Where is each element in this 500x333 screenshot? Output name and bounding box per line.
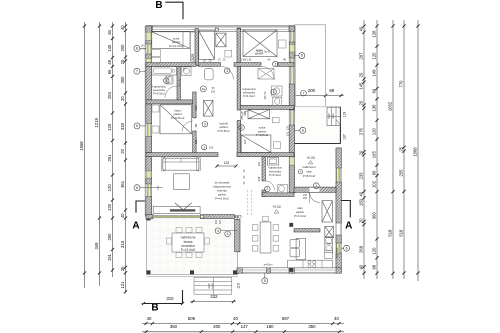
bed bedroom5 xyxy=(241,135,271,152)
svg-text:84: 84 xyxy=(107,29,112,34)
svg-text:P=4.3m2: P=4.3m2 xyxy=(294,214,306,218)
wardrobe bedroom1 xyxy=(190,32,195,61)
svg-text:310: 310 xyxy=(166,296,174,301)
terrace bottom double line xyxy=(147,276,238,278)
right dimension chain 3 (1052/518) xyxy=(392,20,394,279)
svg-text:125: 125 xyxy=(107,203,112,211)
svg-text:A: A xyxy=(345,221,352,232)
leader circle 6 left lower xyxy=(134,185,140,191)
svg-text:49: 49 xyxy=(107,59,112,64)
wall bedroom2-bedroom3 xyxy=(237,29,240,66)
dashed ceiling line xyxy=(247,190,249,216)
svg-text:B: B xyxy=(151,303,158,314)
bathroom2 basin xyxy=(272,86,283,96)
svg-text:127: 127 xyxy=(243,139,247,144)
svg-text:3: 3 xyxy=(204,122,206,126)
svg-text:20: 20 xyxy=(359,72,364,77)
corridor right wall upper xyxy=(237,66,241,110)
svg-text:205: 205 xyxy=(209,146,214,150)
nightstand bedroom4 xyxy=(152,105,159,112)
wall living room top right xyxy=(237,153,294,157)
north exterior wall xyxy=(146,26,294,32)
svg-text:P=5.9m2: P=5.9m2 xyxy=(153,92,165,96)
terrace corner posts xyxy=(147,270,151,274)
west wall window sill xyxy=(146,59,151,65)
bathroom2 shower xyxy=(258,69,274,80)
wall bathroom2-bedroom5 xyxy=(240,105,294,109)
bathroom1 wc xyxy=(166,76,173,84)
porch stairs xyxy=(327,107,340,125)
svg-text:145: 145 xyxy=(359,82,364,90)
svg-text:40: 40 xyxy=(233,316,238,321)
svg-text:128: 128 xyxy=(372,30,377,38)
svg-text:103: 103 xyxy=(285,131,289,136)
entrance porch outline xyxy=(294,107,340,144)
svg-text:P=41.8m2: P=41.8m2 xyxy=(215,196,229,200)
terrace tile grid xyxy=(151,217,153,274)
nightstand bedroom5 xyxy=(272,117,279,122)
west wall pier xyxy=(146,178,152,184)
svg-text:40: 40 xyxy=(334,316,339,321)
bed bedroom2 xyxy=(199,31,215,60)
bed bedroom1 xyxy=(152,32,190,49)
svg-text:2: 2 xyxy=(266,187,268,191)
west wall pier xyxy=(146,41,152,45)
door circle 3 bedroom5 xyxy=(239,125,245,131)
wall below bedroom3 right xyxy=(278,63,295,67)
svg-text:1568: 1568 xyxy=(79,141,84,151)
svg-text:4x30: 4x30 xyxy=(207,283,211,289)
wc left wall lower xyxy=(262,190,265,197)
door arc bedroom4 xyxy=(182,121,193,132)
svg-text:1: 1 xyxy=(315,184,317,188)
svg-text:4x30: 4x30 xyxy=(332,113,335,119)
east lower wall window xyxy=(336,168,338,182)
svg-text:518: 518 xyxy=(399,229,404,237)
svg-text:297: 297 xyxy=(359,52,364,60)
svg-text:8: 8 xyxy=(136,47,138,51)
svg-text:6: 6 xyxy=(346,246,348,250)
svg-text:+0.00: +0.00 xyxy=(272,205,281,209)
north wall post 1 xyxy=(215,28,218,31)
svg-text:25: 25 xyxy=(399,146,404,151)
svg-text:140: 140 xyxy=(141,45,146,48)
bathroom1 bathtub xyxy=(152,67,177,75)
nightstand bedroom1 xyxy=(152,50,161,57)
svg-text:151: 151 xyxy=(107,253,112,261)
kitchen sink bowls xyxy=(290,239,300,247)
terrace table xyxy=(172,233,204,252)
dining table xyxy=(260,222,271,253)
east wall pier xyxy=(289,42,294,45)
west wall pier xyxy=(146,157,152,171)
door arc bedroom5 xyxy=(241,111,251,121)
north wall corner pier east xyxy=(289,26,294,32)
svg-text:300: 300 xyxy=(120,76,125,84)
svg-text:137: 137 xyxy=(343,134,347,140)
svg-text:20: 20 xyxy=(359,100,364,105)
west wall pier xyxy=(146,197,152,217)
washing machine xyxy=(182,67,191,76)
svg-text:P=19.0m2: P=19.0m2 xyxy=(181,248,196,252)
left dimension chain 3 (room dims) xyxy=(112,22,114,277)
svg-text:66: 66 xyxy=(372,88,377,93)
dimension 232 below steps xyxy=(190,300,236,302)
south wall pier xyxy=(289,268,294,273)
kitchen box2 xyxy=(325,244,333,253)
entry door arc xyxy=(310,192,321,202)
svg-text:103: 103 xyxy=(335,253,339,258)
east lower wall pier xyxy=(336,253,341,273)
svg-text:7: 7 xyxy=(303,91,305,95)
svg-text:120: 120 xyxy=(285,125,289,130)
svg-text:40: 40 xyxy=(120,213,125,218)
east lower wall pier xyxy=(336,148,341,168)
sliding door track south xyxy=(153,215,201,217)
east exterior wall upper xyxy=(289,26,294,193)
east lower wall pier xyxy=(336,235,341,243)
svg-text:3a: 3a xyxy=(202,87,206,91)
bottom dimension chain row 1 xyxy=(142,323,344,325)
svg-text:5x28: 5x28 xyxy=(328,113,331,119)
svg-text:127: 127 xyxy=(257,161,261,166)
kitchen small grid xyxy=(325,251,333,259)
svg-text:45: 45 xyxy=(283,58,287,62)
south exterior wall xyxy=(237,268,341,273)
svg-text:P=9.8m2: P=9.8m2 xyxy=(256,133,268,137)
right dimension chain 5 (total 1568) xyxy=(417,20,419,281)
wall living room top left xyxy=(146,153,218,157)
west wall pier xyxy=(146,26,152,32)
svg-text:20: 20 xyxy=(359,150,364,155)
svg-text:121: 121 xyxy=(194,139,198,144)
svg-text:597: 597 xyxy=(282,316,290,321)
svg-text:136: 136 xyxy=(372,104,377,112)
east lower wall pier xyxy=(336,182,341,223)
right dimension chain 2 (room dims) xyxy=(376,20,378,279)
svg-text:2: 2 xyxy=(165,79,167,83)
fridge circle box xyxy=(325,237,333,244)
svg-text:20: 20 xyxy=(359,218,364,223)
corridor dresser xyxy=(205,69,214,80)
north wall corner pier west xyxy=(146,26,152,32)
svg-text:276: 276 xyxy=(359,127,364,135)
wardrobe bedroom5 xyxy=(248,110,270,119)
south wall pier xyxy=(237,268,242,273)
svg-text:20: 20 xyxy=(120,148,125,153)
svg-text:300: 300 xyxy=(372,212,377,220)
circle 1 entry xyxy=(313,183,319,189)
north wall post 2 xyxy=(238,28,241,31)
svg-text:120: 120 xyxy=(335,247,339,252)
svg-text:20: 20 xyxy=(120,59,125,64)
leader circle 5 south wall xyxy=(262,278,268,284)
sofa xyxy=(163,158,199,170)
east wall pier xyxy=(289,125,294,157)
terrace chairs xyxy=(176,228,182,233)
svg-text:200: 200 xyxy=(215,219,218,224)
svg-text:150: 150 xyxy=(359,198,364,206)
east wall pier xyxy=(289,52,294,58)
svg-text:232: 232 xyxy=(210,294,218,299)
svg-text:20: 20 xyxy=(120,96,125,101)
door arc bedroom2 xyxy=(220,66,234,80)
leader circle 6 top right xyxy=(299,53,305,59)
svg-text:40: 40 xyxy=(359,264,364,269)
west wall window xyxy=(146,124,148,137)
east wall window sill xyxy=(290,157,295,165)
terrace steps bottom xyxy=(194,276,232,278)
svg-text:268: 268 xyxy=(359,245,364,253)
bottom dimension chain row 2 xyxy=(142,331,344,333)
svg-text:3: 3 xyxy=(226,69,228,73)
kitchen counter bottom xyxy=(288,260,333,268)
left dimension chain 2 (1219/349) xyxy=(99,22,101,286)
svg-text:145: 145 xyxy=(264,95,267,100)
column post living NE xyxy=(289,223,293,227)
svg-text:1052: 1052 xyxy=(388,101,393,111)
pier dining-terrace xyxy=(235,219,240,252)
wardrobe ulaz xyxy=(322,201,332,222)
svg-text:254: 254 xyxy=(107,91,112,99)
east wall pier xyxy=(289,165,294,193)
svg-text:89: 89 xyxy=(329,88,334,93)
west wall window xyxy=(146,44,148,54)
svg-text:518: 518 xyxy=(388,229,393,237)
svg-text:A: A xyxy=(132,221,139,232)
svg-text:P=12.8m2: P=12.8m2 xyxy=(171,116,185,120)
svg-text:140: 140 xyxy=(107,44,112,52)
svg-text:40: 40 xyxy=(120,25,125,30)
svg-text:102: 102 xyxy=(372,180,377,188)
circle 3a xyxy=(200,86,206,92)
svg-text:66: 66 xyxy=(372,170,377,175)
east wall window xyxy=(289,58,291,84)
svg-text:ulaz: ulaz xyxy=(306,170,312,174)
svg-text:120: 120 xyxy=(372,127,377,135)
svg-text:350: 350 xyxy=(308,324,316,329)
west wall window sill xyxy=(146,171,151,178)
svg-text:205: 205 xyxy=(303,197,308,200)
leader circle 6 kitchen xyxy=(344,245,350,251)
svg-text:770: 770 xyxy=(399,80,404,88)
svg-text:66: 66 xyxy=(107,69,112,74)
right dimension chain 1 (wall dims) xyxy=(363,20,365,279)
svg-text:3: 3 xyxy=(241,126,243,130)
nightstand bedroom3 xyxy=(279,40,287,48)
wall bathroom1-bedroom4 xyxy=(146,100,196,104)
stove burners xyxy=(308,261,311,264)
svg-text:P=5.8m2: P=5.8m2 xyxy=(217,129,229,133)
door circle 3 corridor-living xyxy=(202,145,207,150)
corridor right wall lower xyxy=(237,121,241,157)
svg-text:165: 165 xyxy=(372,151,377,159)
west exterior wall xyxy=(146,26,152,216)
west wall window xyxy=(146,184,148,197)
west wall pier xyxy=(146,54,152,59)
wc door arc xyxy=(265,181,274,190)
nightstand bedroom2 xyxy=(225,50,232,57)
wall below bedroom2 left xyxy=(198,63,220,67)
wall ulaz-kitchen xyxy=(294,229,320,232)
circled 4 markers xyxy=(215,228,221,234)
roof overhang line right xyxy=(294,24,326,26)
svg-text:121: 121 xyxy=(120,281,125,289)
svg-text:5x28: 5x28 xyxy=(211,283,215,289)
svg-text:205: 205 xyxy=(179,82,182,87)
svg-text:3: 3 xyxy=(275,62,277,66)
column post kitchen SW xyxy=(289,268,293,272)
svg-text:+0.00: +0.00 xyxy=(306,156,315,160)
svg-text:350: 350 xyxy=(170,324,178,329)
bed bedroom3 xyxy=(243,30,277,57)
left dimension chain 1 (total 1568) xyxy=(84,22,86,288)
svg-text:509: 509 xyxy=(188,316,196,321)
svg-text:361: 361 xyxy=(120,180,125,188)
south edge circles xyxy=(235,215,238,218)
svg-text:255: 255 xyxy=(399,169,404,177)
svg-text:6: 6 xyxy=(302,129,304,133)
west wall pier xyxy=(146,65,152,100)
svg-text:P=4.3m2: P=4.3m2 xyxy=(243,94,255,98)
svg-text:2: 2 xyxy=(273,90,275,94)
leader circle 6 porch wall xyxy=(300,127,306,133)
wc bottom wall xyxy=(262,193,294,197)
bedroom4 right wall upper xyxy=(193,92,196,118)
south wall pier xyxy=(336,268,341,273)
leader circle 6 left upper xyxy=(134,123,140,129)
svg-text:P=6.3m2: P=6.3m2 xyxy=(269,173,281,177)
door arc bedroom3 xyxy=(261,66,275,80)
svg-text:6: 6 xyxy=(136,124,138,128)
svg-text:205: 205 xyxy=(211,90,216,93)
west wall window sill xyxy=(146,32,151,40)
leader circle 7 xyxy=(134,68,140,74)
svg-text:349: 349 xyxy=(94,242,99,250)
bed bedroom4 xyxy=(160,105,192,134)
east wall pier xyxy=(289,26,294,32)
west wall pier xyxy=(146,104,152,124)
terrace outline xyxy=(147,216,238,274)
east wall window xyxy=(289,32,291,43)
svg-text:325: 325 xyxy=(190,53,195,60)
svg-text:5: 5 xyxy=(264,279,266,283)
svg-text:35: 35 xyxy=(120,266,125,271)
bedroom4 right wall lower xyxy=(193,131,196,157)
tv cabinet xyxy=(153,206,200,213)
bed divider bedroom1 xyxy=(182,32,184,49)
svg-text:120: 120 xyxy=(372,52,377,60)
svg-text:P=12.9m2: P=12.9m2 xyxy=(169,44,183,48)
svg-text:120: 120 xyxy=(372,247,377,255)
svg-text:261: 261 xyxy=(107,154,112,162)
svg-text:233: 233 xyxy=(359,172,364,180)
bathroom2 wc xyxy=(273,97,282,105)
dimension 122 xyxy=(217,165,236,167)
svg-text:200: 200 xyxy=(219,219,222,224)
wall bedroom1-bedroom2 xyxy=(195,29,198,66)
door circle 3 bedroom4 xyxy=(202,121,208,127)
leader circle 8 xyxy=(134,45,140,51)
svg-text:95: 95 xyxy=(194,124,198,128)
bathroom1 right wall xyxy=(177,66,180,100)
svg-text:1219: 1219 xyxy=(94,117,99,127)
wardrobe bedroom2 xyxy=(216,33,226,47)
wardrobe corridor xyxy=(204,100,214,116)
coffee table xyxy=(174,174,190,190)
svg-text:6: 6 xyxy=(136,186,138,190)
svg-text:98: 98 xyxy=(372,264,377,269)
svg-text:p=90cm: p=90cm xyxy=(264,264,273,267)
svg-text:2.80/1.30: 2.80/1.30 xyxy=(241,58,252,61)
svg-text:40: 40 xyxy=(359,26,364,31)
east wall pier xyxy=(289,84,294,110)
entry wall porch-ulaz xyxy=(294,187,336,192)
svg-text:128: 128 xyxy=(257,176,261,181)
svg-text:180: 180 xyxy=(266,324,274,329)
wc shower xyxy=(267,158,278,166)
dimension 310 with B mark line xyxy=(141,303,183,305)
dimension (7)200 89 right of plan xyxy=(294,95,344,97)
svg-text:200: 200 xyxy=(308,88,316,93)
svg-text:40: 40 xyxy=(359,191,364,196)
wall below bedroom3 left xyxy=(234,63,261,67)
wc basin circle xyxy=(265,186,271,192)
svg-text:P=13.3m2: P=13.3m2 xyxy=(257,50,270,54)
tall cabinet kitchen xyxy=(325,226,334,237)
east lower wall window xyxy=(336,243,338,253)
svg-text:90+90: 90+90 xyxy=(139,48,146,50)
dining chairs xyxy=(252,225,258,231)
south wall pier xyxy=(267,268,271,273)
svg-text:1568: 1568 xyxy=(413,147,418,157)
east wall window sill xyxy=(290,45,295,53)
kitchen counter left xyxy=(296,239,306,260)
right dimension chain 4 (770/25/255/518) xyxy=(403,20,405,279)
bathroom1 door arc xyxy=(165,86,178,98)
svg-text:318: 318 xyxy=(120,122,125,130)
left dimension chain 4 (wall dims) xyxy=(125,22,127,293)
svg-text:B: B xyxy=(155,0,162,11)
west wall pier xyxy=(146,137,152,153)
wc left wall upper xyxy=(262,157,265,181)
svg-text:7: 7 xyxy=(136,69,138,73)
wall below bedroom1 xyxy=(146,63,196,67)
door circle 3 bedroom3 xyxy=(273,61,279,67)
east exterior wall lower xyxy=(336,148,341,273)
svg-text:200: 200 xyxy=(213,324,221,329)
svg-text:6: 6 xyxy=(301,54,303,58)
svg-text:P=8.0m2: P=8.0m2 xyxy=(303,174,316,178)
east wall window xyxy=(289,110,291,125)
wc toilet xyxy=(278,185,288,193)
svg-text:149: 149 xyxy=(372,69,377,77)
svg-text:119: 119 xyxy=(343,112,347,118)
svg-text:103: 103 xyxy=(243,111,247,116)
svg-text:119: 119 xyxy=(237,283,241,289)
svg-text:40: 40 xyxy=(147,316,152,321)
svg-text:162: 162 xyxy=(194,105,198,110)
svg-text:4: 4 xyxy=(227,232,229,236)
svg-text:122: 122 xyxy=(224,161,230,165)
svg-text:200: 200 xyxy=(107,233,112,241)
south living room piers xyxy=(146,215,153,219)
svg-text:natkriveni: natkriveni xyxy=(302,165,316,169)
svg-text:4: 4 xyxy=(217,229,219,233)
svg-text:200: 200 xyxy=(120,44,125,52)
svg-text:313: 313 xyxy=(120,240,125,248)
svg-text:147: 147 xyxy=(241,324,249,329)
